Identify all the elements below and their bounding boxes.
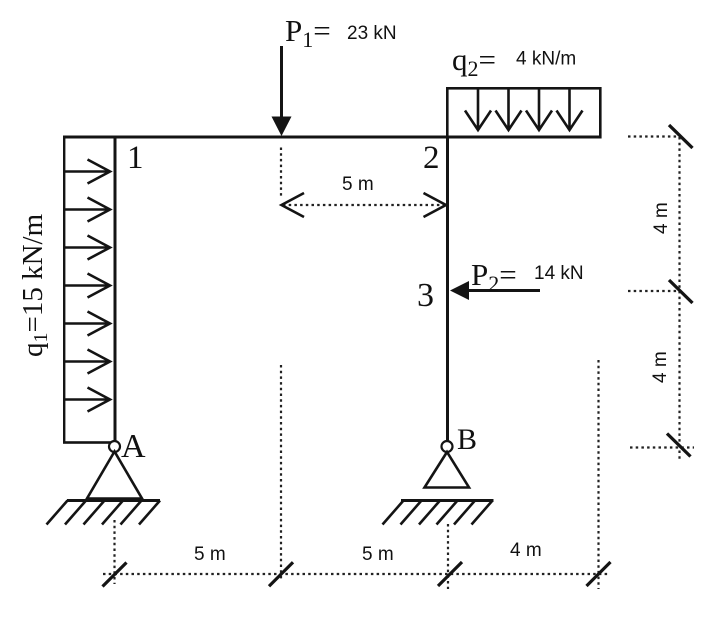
bottom dimension text 4 m: [510, 540, 542, 561]
dotted guide below support A: [113, 520, 115, 584]
bottom tick slash at x=281: [269, 562, 293, 586]
svg-text:4 m: 4 m: [651, 202, 672, 234]
svg-text:5 m: 5 m: [194, 544, 226, 565]
svg-text:5 m: 5 m: [342, 174, 374, 195]
support B ground line: [401, 499, 494, 502]
right dimension dotted tick at node3 level: [628, 290, 681, 292]
label P2=: [471, 257, 517, 296]
distributed load q2 box (right overhang): [446, 87, 602, 139]
bottom dimension text 5 m (left): [194, 544, 226, 565]
support A ground line: [67, 499, 160, 502]
support A triangle: [87, 452, 142, 499]
q2 load arrow 3: [526, 89, 552, 130]
label q2=: [452, 42, 496, 81]
dotted guide right of B (x=598.5): [597, 360, 599, 589]
q1 load arrow 6: [65, 350, 111, 374]
node 3 label: [417, 277, 434, 314]
distributed load q1 box (left column): [63, 136, 115, 444]
column node1 to support A: [114, 136, 117, 442]
bottom tick slash at A: [103, 563, 127, 587]
right slash at support level: [667, 434, 691, 457]
q1 load arrow 7: [65, 388, 111, 412]
right dimension text 4 m (lower, rotated): [650, 351, 671, 383]
support A label: [121, 428, 146, 465]
pin circle at B: [442, 441, 453, 452]
svg-text:2: 2: [423, 140, 440, 176]
q2 load arrow 4: [557, 89, 583, 130]
bottom dimension text 5 m (middle): [362, 544, 394, 565]
q1 load arrow 2: [65, 198, 111, 222]
bottom tick slash at x=598.5: [587, 562, 611, 586]
right slash at beam level: [669, 125, 693, 148]
node 1 label: [127, 140, 144, 176]
column node2 to support B: [446, 136, 449, 442]
q1 load arrow 1: [65, 160, 111, 184]
q2 load arrow 1: [465, 89, 491, 130]
support A hatching: [47, 501, 161, 525]
dimension 5m top: vertical dotted guide: [280, 148, 282, 197]
dimension 5m top: dotted double arrow: [282, 193, 447, 217]
load P2 arrow: [450, 281, 540, 300]
svg-text:23 kN: 23 kN: [347, 23, 397, 44]
bottom dimension baseline (dotted): [103, 573, 610, 575]
q1 load arrow 3: [65, 236, 111, 260]
svg-text:4 kN/m: 4 kN/m: [516, 49, 576, 70]
right dimension dotted tick at beam level: [628, 135, 680, 137]
svg-text:4 m: 4 m: [510, 540, 542, 561]
right slash at node3 level: [669, 280, 693, 303]
bottom tick slash at B: [438, 562, 462, 586]
q1 load arrow 4: [65, 274, 111, 298]
middle vertical dotted guide (below 5m arrow): [280, 365, 282, 580]
q2 load arrow 2: [496, 89, 522, 130]
node 2 label: [423, 140, 440, 176]
svg-text:3: 3: [417, 277, 434, 314]
right dimension text 4 m (upper, rotated): [651, 202, 672, 234]
support B hatching: [383, 501, 493, 525]
q1 value label (rotated): [17, 213, 52, 357]
label P1=: [285, 13, 331, 52]
support B label: [457, 423, 477, 456]
svg-text:14 kN: 14 kN: [534, 263, 584, 284]
beam node1 to node2 (top member): [63, 136, 602, 139]
svg-text:A: A: [121, 428, 146, 465]
load P1 arrow: [272, 46, 292, 136]
dotted guide below support B: [447, 524, 449, 589]
svg-text:1: 1: [127, 140, 144, 176]
value 4 kN/m: [516, 49, 576, 70]
support B triangle: [425, 452, 470, 488]
right dimension vertical dotted line: [678, 137, 680, 460]
value 14 kN: [534, 263, 584, 284]
svg-text:4 m: 4 m: [650, 351, 671, 383]
q1 load arrow 5: [65, 312, 111, 336]
svg-text:5 m: 5 m: [362, 544, 394, 565]
pin circle at A: [109, 441, 120, 452]
svg-text:B: B: [457, 423, 477, 456]
dimension 5m top: text: [342, 174, 374, 195]
right dimension dotted tick at support level: [630, 446, 694, 448]
value 23 kN: [347, 23, 397, 44]
